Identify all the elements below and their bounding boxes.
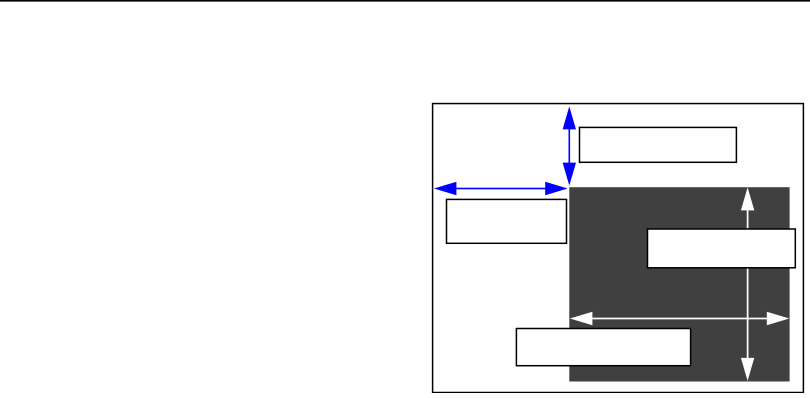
header rule <box>0 0 810 2</box>
body block (dark gray) <box>569 187 789 381</box>
blue vertical double arrow (top margin) <box>563 106 576 185</box>
blue horizontal double arrow (left margin) <box>434 182 568 195</box>
label box: top (header) <box>580 127 737 162</box>
page outline rectangle <box>433 104 804 393</box>
white vertical double arrow (text height) <box>741 187 754 381</box>
label box: right (on body) <box>648 229 796 268</box>
white horizontal double arrow (text width) <box>570 312 789 325</box>
label box: bottom <box>516 329 690 366</box>
label box: left (margin) <box>447 199 567 243</box>
